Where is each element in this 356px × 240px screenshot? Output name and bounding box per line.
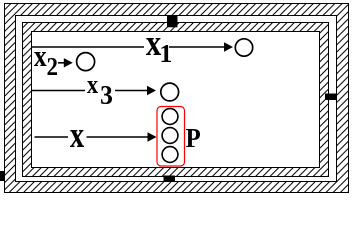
wire row4 left: [35, 136, 69, 138]
wire row4 right: [87, 136, 149, 138]
label x1 "x": [146, 38, 161, 55]
arrowhead row3: [147, 86, 156, 95]
label P: [186, 129, 200, 147]
circle row3: [161, 83, 179, 101]
wire row1 right: [169, 46, 224, 48]
arrowhead row2: [64, 58, 73, 67]
inner hatched wall: [23, 23, 329, 177]
bottom handle: [164, 176, 176, 182]
wire row2: [58, 62, 65, 64]
label x2 "x": [34, 52, 47, 66]
label x1 subscript "1": [162, 45, 172, 62]
label x2 subscript "2": [48, 58, 58, 75]
red queue box P: [157, 107, 185, 167]
arrowhead row1: [224, 42, 233, 51]
label x3 subscript "3": [101, 86, 112, 104]
circle row1: [235, 39, 252, 56]
outer hatched wall: [5, 4, 349, 193]
wire row3 left: [31, 90, 85, 92]
circle row2: [77, 53, 95, 71]
top handle: [167, 16, 178, 28]
arrowhead row4: [148, 132, 157, 141]
label x row4: [70, 130, 84, 147]
queue circle 3: [162, 147, 178, 163]
queue circle 1: [162, 109, 178, 125]
queue circle 2: [162, 128, 178, 144]
wire row1 left: [31, 46, 144, 48]
left edge mark: [0, 171, 4, 181]
wire row3 right: [115, 90, 148, 92]
label x3 "x": [87, 81, 98, 93]
right handle: [325, 94, 336, 101]
